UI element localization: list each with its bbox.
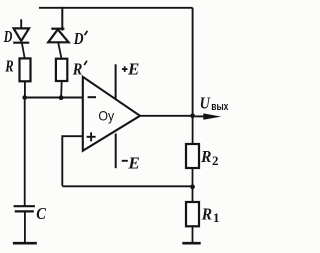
wire: D' to R'	[58, 42, 61, 58]
svg-text:E: E	[127, 153, 139, 172]
svg-text:C: C	[36, 204, 46, 223]
op-amp inverting input mark	[88, 96, 96, 98]
wire: capacitor to ground	[24, 212, 26, 243]
svg-text:D: D	[73, 29, 84, 48]
diode D (cathode bar down)	[13, 28, 29, 42]
wire: feedback bottom run to R1/R2 node	[62, 185, 192, 187]
capacitor C	[14, 206, 35, 211]
diode D' (cathode bar up)	[48, 29, 68, 43]
wire: R2 to R1	[192, 168, 194, 202]
power +E supply line	[115, 64, 117, 98]
wire: non-inverting input feedback (left + down + across)	[62, 136, 83, 186]
wire: top rail	[39, 7, 193, 9]
label -E minus sign	[122, 160, 128, 162]
svg-text:Оу: Оу	[98, 108, 114, 124]
svg-text:U: U	[200, 93, 211, 112]
node: bus / left column junction	[22, 95, 27, 100]
ground (right)	[182, 242, 200, 245]
wire: right rail from output node to R2	[192, 116, 194, 144]
wire: inverting input bus	[25, 97, 83, 99]
op-amp non-inverting input mark	[87, 132, 96, 141]
resistor R'	[56, 59, 67, 81]
svg-text:E: E	[127, 60, 139, 79]
wire: left column down to capacitor	[24, 98, 26, 206]
resistor R1	[186, 202, 199, 226]
node: bus / R' junction	[59, 95, 64, 100]
op-amp U1 triangle	[83, 77, 140, 151]
svg-text:R: R	[5, 57, 14, 76]
wire: R down to inverting bus	[24, 81, 26, 97]
resistor R2	[186, 144, 199, 168]
power -E supply line	[115, 134, 117, 169]
label +E plus sign	[122, 66, 128, 72]
wire: R1 to ground	[192, 226, 194, 243]
svg-text:R: R	[72, 60, 82, 79]
resistor R	[20, 58, 31, 81]
svg-text:2: 2	[212, 153, 219, 168]
wire: R' down to inverting bus	[60, 81, 63, 98]
svg-text:D: D	[3, 27, 12, 46]
svg-text:R: R	[200, 147, 211, 166]
wire: op-amp output to right rail	[140, 115, 193, 117]
ground (left)	[13, 242, 37, 245]
output arrow Uvyh	[195, 113, 221, 119]
wire: D to R	[22, 44, 25, 59]
wire: D' anode stub through top rail	[61, 7, 63, 31]
wire: right rail upper (top rail corner down to output node)	[192, 8, 194, 116]
svg-text:R: R	[201, 205, 212, 224]
node: feedback junction	[190, 184, 195, 189]
wire: D anode stub	[20, 19, 22, 28]
node: output junction	[190, 113, 195, 118]
svg-text:1: 1	[213, 210, 220, 225]
svg-text:вых: вых	[211, 101, 229, 113]
